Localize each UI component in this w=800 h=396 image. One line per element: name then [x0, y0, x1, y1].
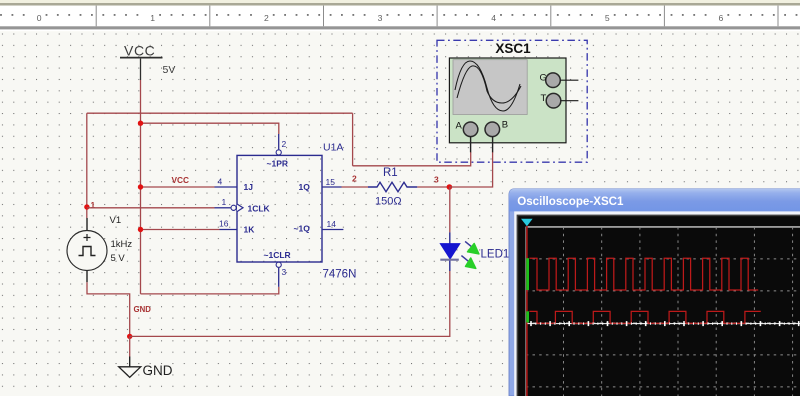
graticule horizontal gridlines [526, 259, 800, 387]
wire node1 down to scope row [352, 113, 354, 166]
svg-text:3: 3 [282, 267, 287, 277]
junction node 3 [447, 184, 453, 190]
svg-text:5V: 5V [163, 64, 176, 76]
wire VCC to pin 16 [141, 229, 220, 231]
pin 1 stub with clock bubble [215, 204, 244, 212]
svg-text:U1A: U1A [323, 142, 343, 154]
svg-text:~1PR: ~1PR [267, 159, 289, 169]
wire V1 minus to ground node [87, 282, 130, 336]
svg-text:1K: 1K [244, 225, 256, 235]
svg-text:~1Q: ~1Q [294, 224, 311, 234]
junction ground node [127, 334, 132, 339]
wire VCC rail to pin 3 ~1CLR [141, 287, 279, 294]
svg-text:4: 4 [491, 13, 496, 23]
screen sine waves [455, 61, 521, 111]
wire ground node down [129, 336, 131, 356]
svg-text:G: G [540, 73, 547, 84]
graticule vertical gridlines [564, 227, 793, 396]
svg-text:3: 3 [434, 174, 439, 184]
svg-text:3: 3 [378, 13, 383, 23]
pin 4 stub [215, 186, 238, 188]
time cursor [526, 226, 528, 396]
junction pin16 tap [138, 227, 143, 232]
channel A start marker [526, 258, 529, 290]
oscilloscope icon screen [453, 60, 527, 115]
LED light arrow 1 [465, 241, 479, 254]
waveform channel B [529, 311, 760, 323]
graticule left border [525, 227, 527, 396]
svg-text:6: 6 [719, 13, 724, 23]
graticule top border [526, 226, 800, 228]
terminal G lead [560, 79, 578, 81]
svg-text:Oscilloscope-XSC1: Oscilloscope-XSC1 [517, 195, 624, 208]
wire VCC vertical rail [140, 80, 142, 294]
terminal B stub [492, 137, 494, 153]
svg-text:7476N: 7476N [323, 268, 357, 280]
junction VCC/pin2 [138, 121, 143, 126]
wire pin15 to R1 [342, 186, 369, 188]
svg-text:4: 4 [218, 176, 223, 186]
waveform channel A [529, 258, 758, 290]
resistor R1 [368, 182, 417, 191]
oscilloscope icon body [449, 58, 566, 143]
window client area [514, 211, 800, 396]
time axis [528, 323, 800, 325]
power symbol VCC [120, 43, 163, 80]
wire node3 to scope channel B [449, 152, 492, 187]
svg-text:B: B [502, 120, 508, 131]
svg-text:T: T [541, 93, 547, 104]
svg-text:~1CLR: ~1CLR [264, 250, 291, 260]
op IC U1A box [237, 155, 322, 262]
source V1 [67, 218, 107, 282]
svg-text:1J: 1J [244, 182, 254, 192]
svg-text:1: 1 [222, 197, 227, 207]
terminal A [463, 122, 478, 137]
svg-text:R1: R1 [383, 167, 398, 179]
LED light arrow 2 [461, 256, 475, 269]
terminal T [546, 93, 561, 108]
pin 2 stub with bubble [276, 134, 281, 155]
time axis ticks [531, 321, 799, 326]
trigger marker [521, 219, 533, 226]
svg-text:2: 2 [352, 173, 357, 183]
wire node1 to scope channel A [353, 152, 471, 166]
oscilloscope window XSC1 frame [509, 189, 800, 396]
svg-text:15: 15 [326, 177, 336, 187]
wire node1 to pin 1 1CLK [87, 207, 215, 209]
svg-text:2: 2 [282, 139, 287, 149]
pin 16 stub [220, 229, 238, 231]
wire ground node to LED cathode [130, 271, 450, 336]
junction pin4 tap [138, 184, 143, 189]
svg-text:5: 5 [605, 13, 610, 23]
wire R1 to node 3 [417, 186, 449, 188]
scope panel bezel [517, 215, 800, 396]
terminal T lead [561, 100, 579, 102]
channel B start marker [526, 311, 529, 322]
svg-text:VCC: VCC [124, 43, 155, 59]
svg-text:XSC1: XSC1 [495, 41, 531, 56]
wire VCC to pin 2 ~1PR [141, 123, 279, 134]
svg-text:16: 16 [219, 219, 229, 229]
wire node1 top horizontal [87, 112, 353, 114]
svg-text:2: 2 [264, 13, 269, 23]
junction node 1 [84, 204, 89, 209]
svg-text:VCC: VCC [172, 175, 190, 185]
svg-text:150Ω: 150Ω [375, 196, 402, 208]
svg-text:1Q: 1Q [299, 182, 311, 192]
svg-text:1: 1 [91, 200, 96, 210]
svg-text:14: 14 [327, 219, 337, 229]
svg-text:GND: GND [134, 305, 152, 314]
svg-text:1kHz: 1kHz [111, 239, 133, 250]
svg-text:LED1: LED1 [481, 248, 510, 260]
window title bar [509, 189, 800, 212]
svg-text:1CLK: 1CLK [248, 203, 271, 213]
svg-text:1: 1 [150, 13, 155, 23]
wire VCC to pin 4 [141, 186, 215, 188]
wire node3 down to LED [449, 187, 451, 232]
svg-text:V1: V1 [110, 215, 122, 226]
svg-text:0: 0 [37, 13, 42, 23]
terminal A stub [470, 137, 472, 153]
scope panel background [518, 216, 800, 396]
pin 14 stub [322, 229, 343, 231]
terminal B [485, 122, 500, 137]
pin 15 stub [322, 186, 342, 188]
svg-text:A: A [456, 121, 463, 132]
svg-text:5 V: 5 V [111, 253, 126, 264]
selection box XSC1 [437, 40, 587, 162]
svg-text:GND: GND [143, 363, 173, 378]
LED LED1 [440, 232, 460, 271]
pin 3 stub with bubble [276, 262, 281, 287]
ground symbol [119, 357, 141, 378]
wire node1 vertical [86, 113, 88, 218]
terminal G [546, 73, 561, 88]
